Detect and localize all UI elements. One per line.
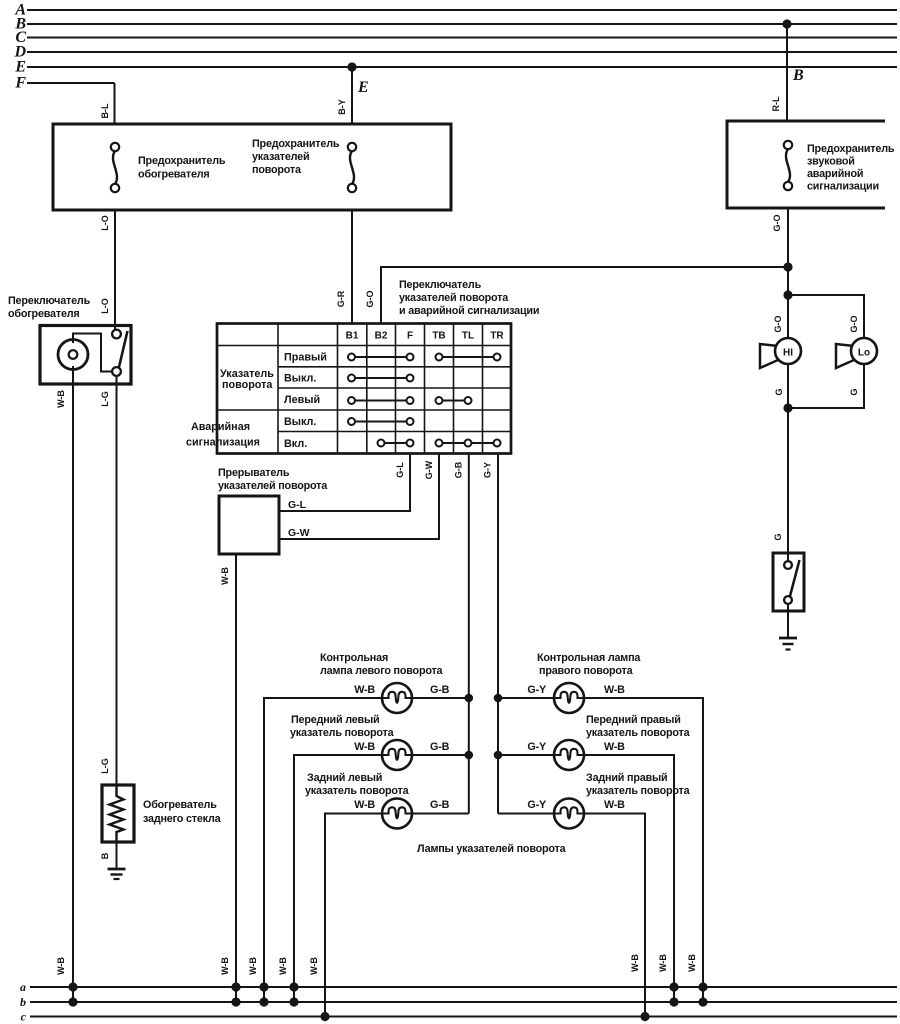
lamp L2 front left [382, 740, 412, 770]
bus C [27, 37, 897, 39]
heater switch contacts [112, 330, 121, 339]
lamp R2 front right [554, 740, 584, 770]
svg-text:Переключатель: Переключатель [8, 295, 91, 307]
svg-text:L-G: L-G [100, 758, 110, 774]
wire R-L drop from bus B [786, 24, 788, 121]
svg-text:R-L: R-L [771, 96, 781, 111]
svg-text:G-W: G-W [424, 460, 434, 479]
svg-text:W-B: W-B [354, 684, 375, 696]
svg-text:Выкл.: Выкл. [284, 416, 316, 428]
wire HI to junction [787, 364, 789, 408]
defogger resistor element [110, 785, 124, 842]
junction horn branch [783, 290, 792, 299]
horn switch lever [790, 560, 800, 596]
junction below horns [783, 403, 792, 412]
bus A [27, 9, 897, 11]
svg-text:B2: B2 [375, 331, 388, 342]
svg-text:W-B: W-B [354, 799, 375, 811]
wire W-B from flasher to bus [235, 554, 237, 1002]
svg-text:Передний правый: Передний правый [586, 714, 681, 726]
flasher box [219, 496, 279, 554]
node E junction on bus E [347, 62, 356, 71]
lamp R1 control right [554, 683, 584, 713]
wire lamp L2 right G-B [412, 754, 469, 756]
bus F [27, 82, 115, 84]
svg-text:G-O: G-O [773, 316, 783, 333]
svg-text:E: E [14, 59, 26, 76]
svg-text:G-L: G-L [395, 462, 405, 478]
junctions L2 wire [289, 982, 298, 991]
svg-text:поворота: поворота [252, 164, 302, 176]
contacts row Выкл. [352, 377, 411, 379]
wire G-Y from table to lamps [497, 454, 499, 814]
node B junction on bus B [782, 19, 791, 28]
svg-text:аварийной: аварийной [807, 168, 863, 180]
svg-text:F: F [14, 75, 26, 92]
svg-text:Переключатель: Переключатель [399, 279, 482, 291]
svg-text:Задний левый: Задний левый [307, 772, 382, 784]
svg-text:Аварийная: Аварийная [191, 421, 250, 433]
svg-text:обогревателя: обогревателя [8, 308, 80, 320]
svg-text:G-Y: G-Y [527, 799, 547, 811]
svg-text:b: b [20, 995, 26, 1009]
svg-text:W-B: W-B [630, 954, 640, 972]
svg-text:B1: B1 [346, 331, 359, 342]
junction L2 / G-B [465, 751, 474, 760]
svg-text:Предохранитель: Предохранитель [252, 138, 340, 150]
svg-text:правого поворота: правого поворота [539, 665, 634, 677]
svg-text:Левый: Левый [284, 394, 320, 406]
wire G-R from fuse F2 to switch table [351, 210, 353, 324]
svg-text:W-B: W-B [309, 957, 319, 975]
svg-text:L-G: L-G [100, 391, 110, 407]
svg-text:L-O: L-O [100, 298, 110, 314]
wire stubs inside horn switch [787, 553, 789, 562]
svg-text:W-B: W-B [220, 567, 230, 585]
svg-text:B: B [100, 852, 110, 859]
fuse box (heater / turn signal fuses) [53, 124, 451, 210]
svg-text:G-B: G-B [430, 799, 450, 811]
svg-text:G-Y: G-Y [527, 741, 547, 753]
junction L3 wire on bus c [320, 1012, 329, 1021]
svg-text:W-B: W-B [56, 957, 66, 975]
horn switch box [773, 553, 804, 611]
svg-text:Задний правый: Задний правый [586, 772, 667, 784]
wire to horn switch [787, 408, 789, 553]
svg-text:звуковой: звуковой [807, 156, 855, 168]
svg-text:B: B [792, 67, 804, 84]
svg-text:G-W: G-W [288, 527, 310, 539]
svg-text:c: c [21, 1010, 27, 1024]
svg-text:указателей: указателей [252, 151, 309, 163]
wire lamp R1 right W-B [584, 698, 703, 1002]
wire lamp L1 left W-B [264, 698, 382, 1002]
wire branch to Lo horn [788, 295, 864, 339]
svg-text:TR: TR [490, 331, 504, 342]
heater indicator lamp [58, 340, 88, 370]
junction R3 wire on bus c [640, 1012, 649, 1021]
wire lamp L1 right G-B [412, 697, 469, 699]
svg-text:указателей поворота: указателей поворота [399, 292, 509, 304]
svg-text:указатель поворота: указатель поворота [290, 727, 395, 739]
bus a [30, 986, 897, 988]
contacts row Правый [352, 356, 411, 358]
svg-text:G-Y: G-Y [483, 462, 493, 478]
svg-text:G-B: G-B [454, 461, 464, 478]
heater switch box [40, 326, 131, 385]
table row lines [217, 345, 511, 347]
svg-text:G-B: G-B [430, 684, 450, 696]
ground (horn switch) [779, 637, 797, 640]
junctions heater wire [68, 982, 77, 991]
wire L-G from heater switch to defogger [116, 376, 118, 785]
lamp L1 control left [382, 683, 412, 713]
table column lines [277, 324, 279, 454]
svg-text:G-O: G-O [772, 215, 782, 232]
switch table outer frame [217, 324, 511, 454]
svg-text:F: F [407, 331, 413, 342]
junction R1 / G-Y [494, 694, 503, 703]
svg-text:указатель поворота: указатель поворота [586, 785, 691, 797]
svg-text:и аварийной сигнализации: и аварийной сигнализации [399, 305, 539, 317]
svg-text:W-B: W-B [604, 741, 625, 753]
svg-text:G-O: G-O [365, 291, 375, 308]
horn HI [760, 344, 778, 368]
svg-text:лампа левого поворота: лампа левого поворота [320, 665, 444, 677]
svg-text:G: G [774, 388, 784, 395]
fuse F1 heater [113, 151, 117, 184]
svg-text:L-O: L-O [100, 215, 110, 231]
svg-text:Контрольная лампа: Контрольная лампа [537, 652, 641, 664]
svg-text:Передний левый: Передний левый [291, 714, 379, 726]
junction G-O feed / horn wire [783, 262, 792, 271]
fuse box (horn/hazard fuse), open right side [727, 121, 885, 208]
svg-text:W-B: W-B [354, 741, 375, 753]
svg-text:W-B: W-B [248, 957, 258, 975]
wire G-B from table to lamps [468, 454, 470, 814]
wire G-W from table to flasher [279, 454, 439, 540]
wire G-L from table to flasher [279, 454, 410, 512]
bus b [30, 1001, 897, 1003]
junctions R1 wire [698, 982, 707, 991]
svg-text:B-Y: B-Y [337, 99, 347, 115]
svg-text:сигнализации: сигнализации [807, 181, 879, 193]
wire lamp L3 left W-B [325, 814, 382, 1017]
svg-text:a: a [20, 980, 26, 994]
svg-text:HI: HI [783, 348, 793, 359]
wire B-Y drop from bus E [351, 67, 353, 124]
wire lamp R3 left G-Y [498, 813, 554, 815]
svg-text:Lo: Lo [858, 348, 870, 359]
horn Lo [836, 344, 854, 368]
heater switch lever [119, 331, 128, 367]
bus D [27, 51, 897, 53]
svg-text:указатель поворота: указатель поворота [305, 785, 410, 797]
junction L1 / G-B [465, 694, 474, 703]
wire lamp R1 left G-Y [498, 697, 554, 699]
wire lamp R3 right W-B [584, 814, 645, 1017]
bus B [27, 23, 897, 25]
wire lamp R2 left G-Y [498, 754, 554, 756]
svg-text:Обогреватель: Обогреватель [143, 799, 217, 811]
svg-text:G-Y: G-Y [527, 684, 547, 696]
junctions flasher wire [231, 982, 240, 991]
bus E [27, 66, 897, 68]
fuse F2 turn signals [350, 151, 354, 184]
svg-text:Вкл.: Вкл. [284, 438, 307, 450]
svg-text:указатель поворота: указатель поворота [586, 727, 691, 739]
wire W-B from heater lamp to bus [72, 370, 74, 1003]
svg-text:W-B: W-B [220, 957, 230, 975]
svg-text:G-B: G-B [430, 741, 450, 753]
wire to ground (horn switch) [787, 611, 789, 638]
fuse F3 horn [786, 149, 790, 182]
bus c [30, 1016, 897, 1018]
contacts row Левый [352, 400, 411, 402]
junction R2 / G-Y [494, 751, 503, 760]
junctions R2 wire [669, 982, 678, 991]
wire B to ground [116, 842, 118, 869]
contacts row Вкл. [381, 442, 410, 444]
svg-text:G-O: G-O [849, 316, 859, 333]
svg-text:обогревателя: обогревателя [138, 169, 210, 181]
svg-text:поворота: поворота [222, 379, 273, 391]
svg-text:W-B: W-B [658, 954, 668, 972]
wire L-O from fuse F1 to heater switch [114, 210, 116, 330]
contacts row Выкл. (hazard) [352, 421, 411, 423]
svg-text:Контрольная: Контрольная [320, 652, 388, 664]
lamp L3 rear left [382, 799, 412, 829]
horn switch contacts [784, 561, 792, 569]
svg-text:Правый: Правый [284, 352, 327, 364]
svg-text:W-B: W-B [687, 954, 697, 972]
defogger box [102, 785, 134, 842]
svg-text:Предохранитель: Предохранитель [138, 155, 226, 167]
svg-text:G: G [773, 533, 783, 540]
heater lamp leads [72, 340, 74, 343]
wire lamp L2 left W-B [294, 755, 382, 1002]
svg-text:G-L: G-L [288, 499, 307, 511]
ground (defogger) [108, 868, 126, 871]
lamp R3 rear right [554, 799, 584, 829]
heater switch internal wire [73, 334, 112, 372]
svg-text:G: G [849, 388, 859, 395]
svg-text:TB: TB [432, 331, 445, 342]
wire lamp R2 right W-B [584, 755, 674, 1002]
svg-text:E: E [357, 79, 369, 96]
svg-text:TL: TL [462, 331, 474, 342]
junctions L1 wire [259, 982, 268, 991]
svg-text:сигнализация: сигнализация [186, 437, 260, 449]
svg-text:B-L: B-L [100, 103, 110, 118]
wire Lo to junction [788, 364, 864, 408]
svg-text:G-R: G-R [336, 290, 346, 307]
svg-text:Предохранитель: Предохранитель [807, 143, 895, 155]
svg-text:заднего стекла: заднего стекла [143, 813, 222, 825]
svg-text:Прерыватель: Прерыватель [218, 467, 290, 479]
svg-text:Выкл.: Выкл. [284, 373, 316, 385]
svg-text:W-B: W-B [278, 957, 288, 975]
svg-text:указателей поворота: указателей поворота [218, 480, 328, 492]
wire G-O feed from hazard switch to right [381, 267, 788, 324]
svg-text:Лампы указателей поворота: Лампы указателей поворота [417, 843, 567, 855]
svg-text:W-B: W-B [604, 684, 625, 696]
wire lamp L3 right G-B [412, 813, 469, 815]
svg-text:W-B: W-B [56, 390, 66, 408]
wire G-O from fuse F3 down [787, 208, 789, 267]
svg-text:W-B: W-B [604, 799, 625, 811]
wire F drop [114, 83, 116, 124]
wire down to horns [787, 267, 789, 339]
